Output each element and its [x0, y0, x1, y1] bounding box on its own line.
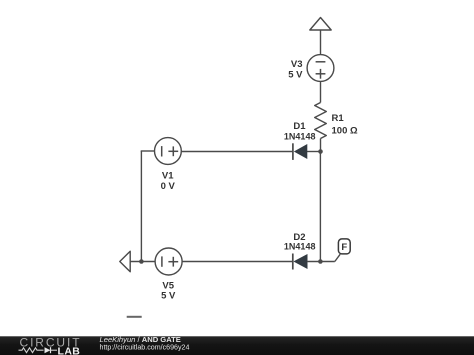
wire	[320, 81, 322, 102]
svg-text:R1: R1	[332, 113, 345, 124]
voltage source V3	[307, 55, 334, 82]
svg-text:http://circuitlab.com/c696y24: http://circuitlab.com/c696y24	[100, 343, 190, 351]
footer bar	[0, 336, 474, 355]
svg-text:1N4148: 1N4148	[284, 132, 316, 142]
svg-text:5 V: 5 V	[288, 70, 303, 81]
wire to flag	[335, 254, 340, 261]
svg-text:100 Ω: 100 Ω	[332, 126, 358, 137]
wire	[141, 150, 155, 152]
svg-text:D1: D1	[293, 121, 306, 132]
port flag left	[120, 251, 130, 272]
junction node A	[318, 149, 323, 154]
wire	[130, 261, 155, 263]
svg-text:0 V: 0 V	[161, 181, 176, 192]
power flag top	[310, 18, 331, 31]
diode D1	[295, 145, 307, 158]
svg-text:V1: V1	[162, 170, 174, 181]
logo diode	[45, 347, 51, 353]
resistor R1	[315, 103, 327, 139]
junction	[139, 259, 144, 264]
svg-text:1N4148: 1N4148	[284, 242, 316, 252]
diode D2	[295, 255, 308, 268]
logo resistor	[19, 348, 44, 353]
voltage source V1	[155, 138, 182, 165]
junction node F wire	[318, 259, 323, 264]
wire	[182, 261, 293, 263]
vertical wire	[319, 152, 321, 262]
wire	[140, 151, 142, 262]
wire	[181, 151, 293, 153]
node flag F	[338, 239, 350, 254]
svg-text:5 V: 5 V	[161, 290, 176, 301]
wire stub	[127, 316, 142, 318]
wire	[307, 151, 321, 153]
wire	[307, 261, 335, 263]
svg-text:V3: V3	[291, 59, 303, 70]
voltage source V5	[155, 248, 182, 275]
wire	[320, 139, 322, 152]
svg-text:F: F	[341, 242, 347, 253]
svg-text:LAB: LAB	[58, 345, 81, 355]
wire	[320, 30, 322, 55]
